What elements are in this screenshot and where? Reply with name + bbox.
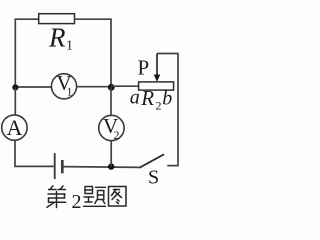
caption: 第 [47,186,66,208]
svg-text:2: 2 [114,128,120,142]
svg-text:b: b [162,87,172,109]
wire V1 right to node [77,86,111,88]
wire V2 top [110,87,112,115]
wire node to rheostat R2 terminal a [111,85,139,87]
svg-text:2: 2 [156,99,162,113]
wire V1 left [15,86,51,88]
node junction bottom (dot) [108,163,114,169]
wire wiper to right rail down to switch contact [157,54,178,166]
svg-text:R: R [48,22,66,52]
wire left rail upper to ammeter [14,87,16,115]
ammeter A [2,115,27,140]
wire top-left from node left to resistor R1 [15,19,38,87]
svg-text:1: 1 [67,85,73,99]
rheostat wiper arrow P [156,54,158,76]
voltmeter V2 [99,115,124,140]
switch S blade [139,154,164,168]
node junction middle (dot) [108,84,115,91]
rheostat R2 body [139,82,174,90]
svg-text:R: R [140,86,154,110]
svg-text:P: P [138,55,150,79]
node junction left (dot) [12,84,18,90]
wire V2 bottom [110,141,112,167]
svg-text:a: a [130,86,140,108]
svg-text:2: 2 [72,191,82,213]
battery cell: short plate [61,160,64,173]
wire left rail lower to battery [15,140,54,166]
voltmeter V1 [51,74,76,99]
svg-text:1: 1 [66,39,73,54]
battery cell: long plate [54,153,56,179]
svg-text:S: S [148,167,159,189]
wire top-right from resistor R1 to node V2-top [75,19,112,84]
wire battery to switch blade pivot [64,166,140,169]
caption: 图 [109,187,127,207]
svg-text:A: A [7,115,23,140]
resistor R1 [39,14,75,24]
caption: 题 [84,187,106,207]
